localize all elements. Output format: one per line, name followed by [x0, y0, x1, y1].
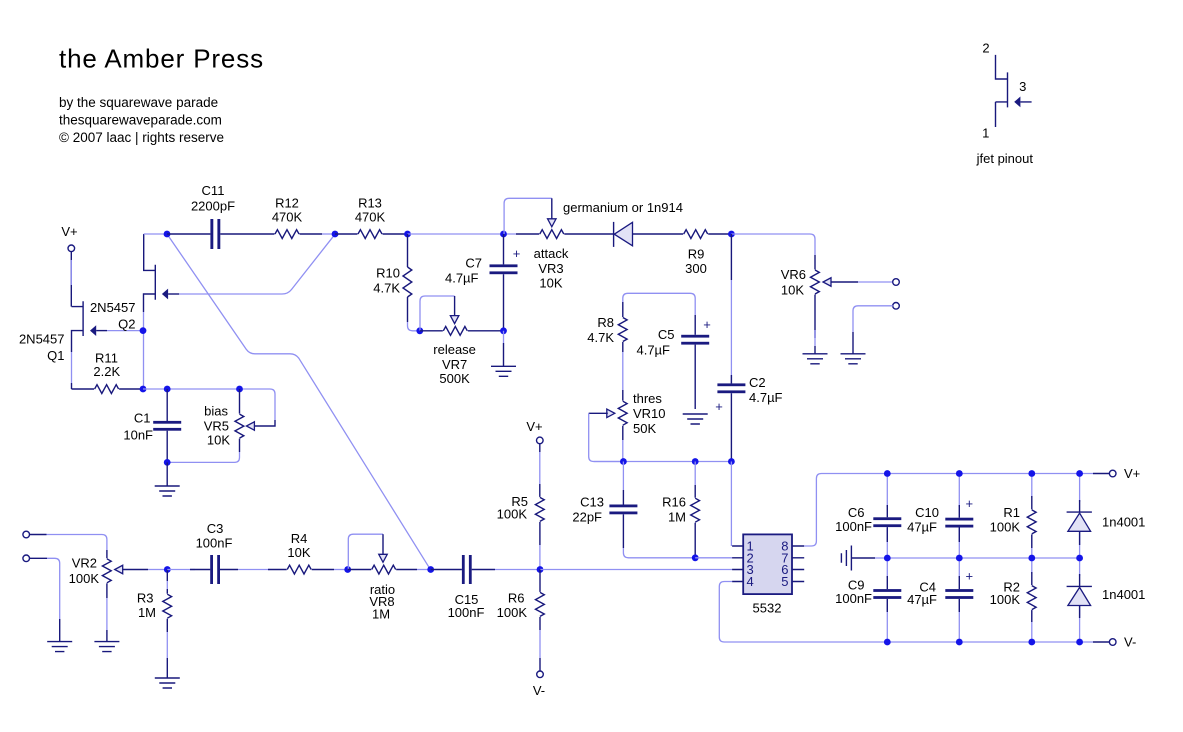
svg-text:5532: 5532 [753, 601, 782, 616]
svg-text:470K: 470K [355, 210, 386, 225]
svg-text:attack: attack [534, 246, 569, 261]
node junctions middle rail [884, 555, 1083, 562]
input terminal 1 [23, 531, 30, 538]
svg-text:+: + [966, 496, 974, 511]
capacitor C9 100nF [835, 561, 901, 639]
svg-text:C11: C11 [202, 183, 225, 198]
transistor Q2 2N5457 [90, 234, 168, 332]
capacitor C10 47uF [907, 477, 973, 555]
output terminal 2 [893, 303, 900, 310]
svg-text:R13: R13 [358, 196, 382, 211]
wire VR5 bottom to C1 bottom [167, 452, 239, 462]
svg-text:10K: 10K [287, 545, 310, 560]
potentiometer VR5 bias 10K [204, 389, 255, 452]
svg-text:C5: C5 [658, 327, 675, 342]
wire R6 bottom to V- terminal [539, 617, 541, 671]
wire C11 left lead [167, 233, 210, 235]
svg-text:+: + [715, 399, 723, 414]
wire top rail left [144, 233, 167, 235]
potentiometer VR7 release 500K [420, 316, 504, 387]
wire middle power rail [851, 557, 1079, 559]
wire R10 top lead [407, 234, 409, 267]
wire Q1 source to R11 [71, 352, 73, 389]
svg-text:V+: V+ [526, 419, 542, 434]
node A junction Q1 gate / Q2 source [140, 327, 147, 334]
wire rail to op-amp pin 1 [730, 462, 732, 547]
svg-text:C6: C6 [848, 505, 865, 520]
potentiometer VR8 ratio 1M [348, 554, 396, 621]
svg-text:VR10: VR10 [633, 406, 666, 421]
svg-text:VR7: VR7 [442, 357, 467, 372]
svg-text:10K: 10K [781, 283, 804, 298]
svg-text:+: + [703, 317, 711, 332]
svg-text:R1: R1 [1003, 505, 1020, 520]
node junction R11/Q2 source [140, 386, 147, 393]
svg-text:+: + [513, 246, 521, 261]
wire junction to attack node [408, 233, 517, 235]
V+ terminal top left [61, 224, 77, 252]
svg-text:4.7K: 4.7K [373, 281, 400, 296]
svg-text:VR3: VR3 [538, 261, 563, 276]
node junction C7/ground [500, 327, 507, 334]
svg-text:2200pF: 2200pF [191, 199, 235, 214]
svg-text:VR5: VR5 [204, 419, 229, 434]
resistor R16 1M [662, 462, 699, 558]
node junction C11 left [164, 231, 171, 238]
wire VR2 bottom to ground [106, 583, 108, 641]
svg-text:the Amber Press: the Amber Press [59, 44, 264, 74]
wire C15 to R5/R6 junction [472, 569, 540, 571]
svg-text:100K: 100K [990, 592, 1021, 607]
svg-text:100K: 100K [497, 605, 528, 620]
svg-text:100nF: 100nF [835, 591, 872, 606]
svg-text:C7: C7 [465, 256, 482, 271]
svg-text:4.7K: 4.7K [587, 330, 614, 345]
svg-text:100K: 100K [69, 571, 100, 586]
svg-text:by the squarewave parade: by the squarewave parade [59, 95, 218, 110]
wire op-amp pin 4 to V- rail [719, 582, 887, 643]
wire input 2 to ground [30, 558, 60, 641]
wire R9 to junction [708, 233, 731, 235]
capacitor C4 47uF [907, 561, 973, 639]
node junction R12/R13 [332, 231, 339, 238]
wire input 1 to VR2 top [30, 535, 107, 559]
resistor R4 10K [287, 531, 311, 574]
node junction VR2/R3/C3 [164, 566, 171, 573]
svg-text:V+: V+ [61, 224, 77, 239]
svg-text:47µF: 47µF [907, 592, 937, 607]
resistor R12 470K [272, 196, 303, 239]
wire V+ to Q1 drain [70, 252, 72, 307]
capacitor C13 22pF [572, 462, 637, 549]
resistor R11 2.2K [72, 351, 144, 394]
capacitor C7 4.7uF [445, 234, 520, 331]
svg-text:50K: 50K [633, 421, 656, 436]
svg-text:4.7µF: 4.7µF [445, 271, 479, 286]
svg-text:© 2007 laac | rights reserve: © 2007 laac | rights reserve [59, 130, 224, 145]
svg-text:Q1: Q1 [47, 348, 64, 363]
ground below output terminal 2 [841, 354, 866, 364]
svg-text:500K: 500K [439, 371, 470, 386]
svg-text:1n4001: 1n4001 [1102, 587, 1145, 602]
node junction C13 top [620, 458, 627, 465]
svg-text:V-: V- [533, 683, 545, 698]
svg-text:C10: C10 [915, 505, 939, 520]
svg-text:C13: C13 [580, 495, 604, 510]
wire junction to op-amp pin 3 [540, 569, 732, 571]
V+ terminal right [1109, 466, 1140, 481]
resistor R13 470K [355, 196, 386, 239]
V- terminal right [1109, 635, 1136, 650]
ground below R3 [155, 678, 180, 688]
wire junction to op-amp pin 2 [695, 557, 732, 559]
wire Q2 gate diagonal to R12/R13 junction [168, 234, 335, 294]
wire VR2 wiper to junction [123, 569, 164, 571]
wire VR6 bottom to ground [814, 295, 816, 354]
wire VR3 wiper loop [504, 198, 552, 234]
node junction C7/attack [500, 231, 507, 238]
ground below C5 [683, 414, 708, 424]
wire VR10 bottom to rail [622, 426, 624, 462]
node junction R13/R10 [404, 231, 411, 238]
svg-text:100K: 100K [497, 507, 528, 522]
op-amp U1 5532 [732, 534, 804, 615]
svg-text:R3: R3 [137, 591, 154, 606]
resistor R10 4.7K [373, 266, 412, 298]
svg-text:3: 3 [1019, 79, 1026, 94]
resistor R8 4.7K [587, 302, 627, 345]
wire R12 to junction [300, 233, 336, 235]
wire output terminal 2 to ground [853, 306, 893, 354]
wire into VR3 [516, 233, 539, 235]
svg-text:thres: thres [633, 391, 662, 406]
capacitor C2 4.7uF [715, 234, 782, 462]
svg-text:R9: R9 [688, 247, 705, 262]
svg-text:R12: R12 [275, 196, 299, 211]
wire R3 bottom to ground [166, 619, 168, 678]
wire C13 bottom to pin2 rail [623, 548, 695, 558]
wire Q1 gate to node A [96, 330, 107, 332]
potentiometer VR2 100K [69, 556, 123, 587]
node junctions V- rail [884, 639, 1083, 646]
svg-text:VR2: VR2 [72, 556, 97, 571]
wire VR6 wiper to output terminal [831, 281, 893, 283]
svg-text:2N5457: 2N5457 [90, 300, 136, 315]
resistor R2 100K [990, 561, 1036, 639]
svg-text:R10: R10 [376, 266, 400, 281]
wire VR8 to C15 junction [396, 569, 431, 571]
svg-text:release: release [433, 342, 476, 357]
svg-text:1M: 1M [372, 607, 390, 622]
wire VR7 wiper loop [420, 296, 455, 331]
wire V- power rail [887, 641, 1109, 643]
wire VR10 wiper loop to rail [589, 413, 624, 461]
svg-text:470K: 470K [272, 210, 303, 225]
wire VR5 wiper lead [254, 420, 275, 426]
title block [59, 44, 264, 146]
node junction R4/VR8 [344, 566, 351, 573]
svg-text:10K: 10K [539, 276, 562, 291]
svg-text:5: 5 [781, 574, 788, 589]
ground below C1 [155, 486, 180, 496]
wire junction to C3 [167, 569, 210, 571]
wire Q2 source down to rail [143, 312, 145, 389]
svg-text:1: 1 [982, 126, 989, 141]
capacitor C15 100nF [448, 555, 485, 620]
svg-text:22pF: 22pF [572, 510, 602, 525]
svg-text:1M: 1M [668, 510, 686, 525]
svg-text:100K: 100K [990, 520, 1021, 535]
svg-text:thesquarewaveparade.com: thesquarewaveparade.com [59, 113, 222, 128]
ground at middle power rail [841, 546, 851, 571]
svg-text:jfet pinout: jfet pinout [976, 151, 1034, 166]
svg-text:4.7µF: 4.7µF [749, 390, 783, 405]
wire C7 junction to ground [503, 331, 505, 367]
svg-text:C3: C3 [207, 521, 224, 536]
svg-text:Q2: Q2 [118, 317, 135, 332]
V- terminal below R6 [533, 671, 545, 698]
node junctions V+ rail [884, 470, 1083, 477]
V+ terminal above R5 [526, 419, 543, 444]
input terminal 2 [23, 555, 30, 562]
svg-text:VR6: VR6 [781, 267, 806, 282]
wire V+ power rail [887, 473, 1109, 475]
wire VR8 wiper loop [348, 534, 383, 569]
transistor Q1 2N5457 [19, 301, 96, 363]
ground below input 2 [47, 642, 72, 652]
svg-text:2: 2 [982, 41, 989, 56]
jfet pinout diagram [976, 41, 1034, 167]
svg-text:C2: C2 [749, 375, 766, 390]
node junction C1 bottom [164, 459, 171, 466]
svg-text:R4: R4 [291, 531, 308, 546]
wire diagonal from C11 junction to ratio junction [167, 234, 431, 570]
svg-text:100nF: 100nF [196, 536, 233, 551]
svg-text:4: 4 [747, 574, 754, 589]
svg-text:+: + [966, 569, 974, 584]
node junction R16 top [692, 458, 699, 465]
node junction R16 bottom [692, 554, 699, 561]
wire R10 bottom to release junction [408, 297, 420, 331]
svg-text:2.2K: 2.2K [93, 364, 120, 379]
node junction VR5 top [236, 386, 243, 393]
capacitor C3 100nF [196, 521, 233, 584]
node junction R9/C2 [728, 231, 735, 238]
svg-text:bias: bias [204, 404, 228, 419]
ground below C7 [491, 366, 516, 376]
resistor R9 300 [684, 230, 708, 276]
wire VR3 to diode [564, 233, 613, 235]
potentiometer VR3 attack 10K [534, 219, 569, 291]
diode D2 1n4001 [1067, 561, 1146, 639]
potentiometer VR10 thres 50K [607, 391, 666, 436]
svg-text:2N5457: 2N5457 [19, 332, 65, 347]
wire R13 right lead [383, 233, 408, 235]
svg-text:R8: R8 [597, 315, 614, 330]
svg-text:300: 300 [685, 261, 707, 276]
svg-text:4.7µF: 4.7µF [636, 343, 670, 358]
resistor R1 100K [990, 477, 1036, 555]
svg-text:V+: V+ [1124, 466, 1140, 481]
node junction release [416, 327, 423, 334]
svg-text:germanium or 1n914: germanium or 1n914 [563, 200, 683, 215]
svg-text:V-: V- [1124, 635, 1136, 650]
svg-text:C1: C1 [134, 411, 151, 426]
ground below VR6 [803, 354, 828, 364]
wire R8/C5 top connector [623, 293, 695, 315]
wire diode to R9 [633, 233, 684, 235]
svg-text:R16: R16 [662, 495, 686, 510]
wire bias rail [143, 389, 275, 420]
capacitor C1 10nF [123, 389, 181, 462]
resistor R3 1M [137, 570, 172, 621]
wire junction to VR6 [731, 234, 815, 270]
wire R8 bottom to VR10 [622, 342, 624, 401]
svg-text:10nF: 10nF [123, 428, 153, 443]
node junction ratio/C15 [427, 566, 434, 573]
capacitor C6 100nF [835, 477, 901, 555]
svg-text:47µF: 47µF [907, 520, 937, 535]
resistor R6 100K [497, 570, 545, 621]
svg-text:R6: R6 [508, 591, 525, 606]
svg-text:100nF: 100nF [835, 519, 872, 534]
svg-text:100nF: 100nF [448, 605, 485, 620]
capacitor C5 4.7uF [636, 315, 710, 409]
node junction R5/R6/C15 [537, 566, 544, 573]
svg-text:1n4001: 1n4001 [1102, 515, 1145, 530]
diode germanium or 1n914 [563, 200, 683, 247]
svg-text:1M: 1M [138, 605, 156, 620]
diode D1 1n4001 [1067, 477, 1146, 555]
wire junction to C15 [431, 569, 462, 571]
output terminal 1 [893, 279, 900, 286]
potentiometer VR6 10K [781, 267, 831, 298]
node junction C2 bottom [728, 458, 735, 465]
wire C3 to R4 [220, 569, 287, 571]
node junction C1 top [164, 386, 171, 393]
svg-text:10K: 10K [207, 433, 230, 448]
ground below VR2 [94, 642, 119, 652]
wire op-amp pin 8 to V+ rail [804, 474, 887, 547]
wire C11 to R12 [220, 233, 274, 235]
wire C1 junction to ground [166, 462, 168, 486]
wire R13 left lead [335, 233, 358, 235]
capacitor C11 2200pF [191, 183, 235, 249]
wire R4 to ratio junction [312, 569, 348, 571]
resistor R5 100K [497, 444, 545, 570]
wire threshold rail [594, 461, 732, 463]
